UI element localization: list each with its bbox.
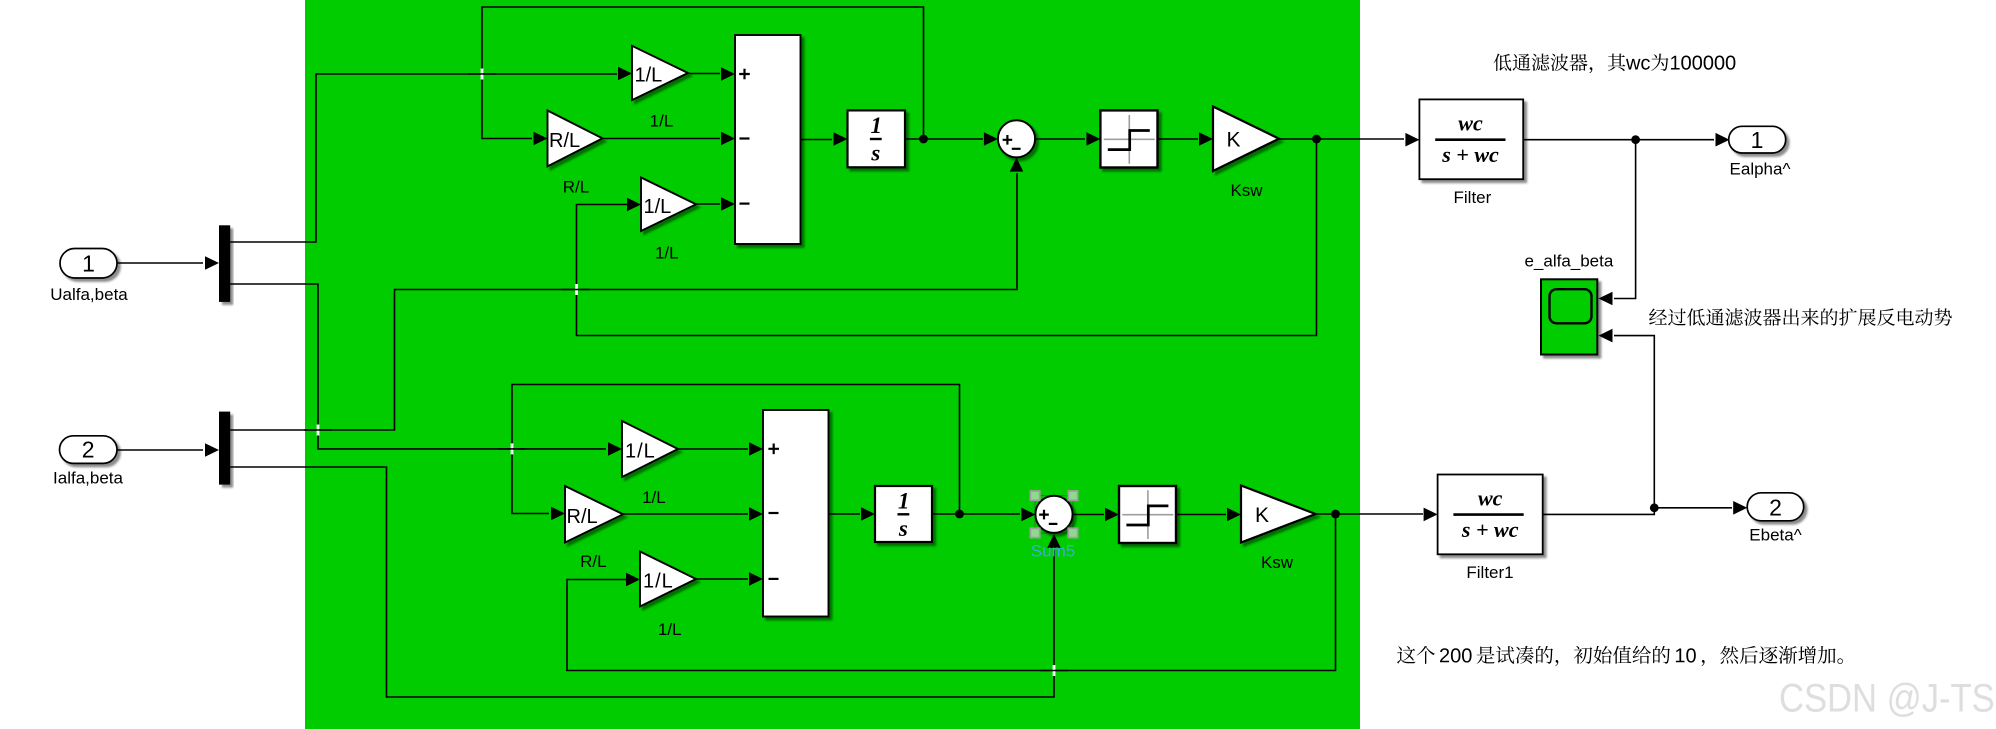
arrowhead into Filter — [1405, 133, 1419, 147]
sign + of Sum1 — [1003, 135, 1013, 145]
gain 1/L2 (top loop) — [641, 178, 696, 232]
junction node: Ksw output — [1312, 135, 1321, 144]
sign - of Sum5 — [1049, 523, 1058, 525]
mux M1 (Ualfa,beta demux) — [219, 225, 230, 302]
annotation: low-pass filter note — [1494, 54, 1736, 74]
wire: bottom R/L out to Sum2 — [623, 513, 748, 515]
svg-text:1: 1 — [82, 251, 95, 277]
junction node: integrator2 output — [955, 510, 964, 519]
svg-text:s + wc: s + wc — [1461, 517, 1519, 542]
arrowhead into gain R/L — [534, 132, 548, 146]
wire: Mux out1 (Ualpha) to gain 1/L (top) — [230, 74, 617, 242]
junction node: Ebeta branch — [1650, 503, 1659, 512]
svg-text:Ksw: Ksw — [1230, 181, 1263, 200]
svg-text:s: s — [870, 141, 880, 166]
wire: Ksw2 feedback to bottom gain 1/L2 — [567, 514, 1336, 671]
arrowhead into Sum2 -b — [749, 572, 763, 586]
sign + of S1 — [739, 69, 750, 80]
arrowhead into Filter1 — [1424, 508, 1438, 522]
wire: bottom gain 1/L2 out to Sum2 — [696, 578, 748, 580]
arrowhead into Sum5 bottom — [1047, 534, 1061, 548]
arrowhead into Saturation — [1086, 132, 1100, 146]
wire: gain 1/L top output to Sum1 + input — [688, 73, 720, 75]
wire: Mux1 out1 (Ialpha) to Sum bottom input — [230, 173, 1017, 430]
annotation: extended back-EMF note — [1649, 308, 1952, 326]
sign + of S2 — [768, 444, 779, 455]
svg-text:K: K — [1226, 128, 1240, 151]
Filter1 block wc/(s+wc) — [1438, 475, 1543, 555]
wire: Mux out2 (Ubeta) to gain 1/L (bottom obs) — [230, 284, 606, 449]
svg-text:Ualfa,beta: Ualfa,beta — [50, 285, 128, 304]
svg-text:Ebeta^: Ebeta^ — [1749, 526, 1801, 545]
svg-text:1/L: 1/L — [635, 65, 663, 87]
svg-text:2: 2 — [82, 437, 95, 463]
gain K (Ksw) — [1213, 107, 1279, 172]
wire: K2 out to Filter1, junction — [1316, 513, 1424, 515]
wire: Integrator2 out to Sum5 — [932, 513, 1020, 515]
wire: Ualfa port to Mux — [117, 262, 203, 264]
wire: Sum5 out to Saturation2 — [1073, 514, 1104, 516]
arrowhead into Scope input1 — [1599, 292, 1613, 306]
wire: Ealpha junction down to Scope input 1 — [1614, 140, 1636, 299]
arrowhead into Integrator2 — [861, 507, 875, 521]
bottom gain 1/L2 — [640, 552, 696, 607]
arrowhead into Sum1 -b — [721, 197, 735, 211]
arrowhead into Saturation2 — [1105, 508, 1119, 522]
arrowhead into Sum circle1 left — [984, 132, 998, 146]
arrowhead into Sum2 -a — [749, 507, 763, 521]
arrowhead into bottom gain R/L — [551, 507, 565, 521]
wire: Sum circle1 out to Saturation — [1035, 138, 1085, 140]
sign - of S2 (mid) — [769, 512, 779, 514]
sign - of S1 (low) — [740, 203, 750, 205]
selection handle BL — [1030, 528, 1039, 537]
svg-text:wc: wc — [1458, 110, 1483, 135]
wire: gain R/L output to Sum1 - input — [602, 138, 720, 140]
arrowhead into Scope input2 — [1599, 329, 1613, 343]
wire: Mux1 out2 (Ibeta) to Sum5 bottom input — [230, 467, 1054, 697]
junction node: integrator1 output — [919, 135, 928, 144]
svg-text:1: 1 — [898, 489, 910, 514]
svg-text:1/L: 1/L — [658, 620, 682, 639]
annotation: 200 tuning note — [1397, 646, 1843, 666]
sign - of Sum1 — [1012, 148, 1021, 150]
svg-text:1/L: 1/L — [655, 244, 679, 263]
svg-text:s: s — [898, 516, 908, 541]
sign - of S1 (mid) — [740, 137, 750, 139]
wire: Filter out to port Ealpha, junction — [1523, 139, 1714, 141]
green background area — [305, 0, 1360, 729]
saturation block — [1100, 110, 1157, 167]
junction node: Ksw2 output — [1331, 510, 1340, 519]
svg-text:Ksw: Ksw — [1261, 553, 1294, 572]
svg-text:1/L: 1/L — [644, 196, 672, 218]
selection handle TL — [1030, 491, 1039, 500]
arrowhead into bottom gain 1/L2 — [626, 573, 640, 587]
arrowhead into bottom gain 1/L — [608, 442, 622, 456]
selection handle BR — [1068, 528, 1077, 537]
svg-text:R/L: R/L — [563, 178, 589, 197]
svg-text:R/L: R/L — [580, 552, 606, 571]
sum block S2 (+ - -) — [763, 410, 829, 617]
svg-text:Ealpha^: Ealpha^ — [1730, 160, 1791, 179]
gain R/L (top) — [548, 111, 603, 167]
selection handle TR — [1068, 491, 1077, 500]
svg-text:wc: wc — [1478, 485, 1503, 510]
arrowhead into port Ebeta — [1733, 501, 1747, 515]
svg-text:1/L: 1/L — [625, 441, 656, 463]
saturation2 block — [1119, 486, 1176, 543]
selection box of Sum5 — [1035, 496, 1073, 534]
sum block S1 (+ - -) — [735, 35, 801, 244]
svg-text:Ialfa,beta: Ialfa,beta — [53, 469, 123, 488]
svg-text:2: 2 — [1769, 494, 1782, 520]
wire: integrator feedback to R/L (top loop) — [482, 7, 924, 139]
svg-text:K: K — [1255, 504, 1269, 527]
arrowhead into Sum2 + — [749, 442, 763, 456]
sum circle Sum1 — [998, 120, 1035, 157]
sum circle Sum5 (selected) — [1035, 496, 1072, 533]
gain 1/L (top, Ualpha) — [632, 46, 688, 100]
bottom gain 1/L (Ubeta) — [622, 421, 678, 477]
svg-text:R/L: R/L — [567, 506, 598, 528]
arrowhead into port Ealpha — [1716, 133, 1730, 147]
wire: bottom obs gain 1/L out to Sum2 — [678, 448, 748, 450]
svg-text:1: 1 — [1751, 127, 1764, 153]
output port 2 (Ebeta^) — [1747, 493, 1804, 521]
wire: integrator2 feedback to R/L2 (bottom loop) — [512, 385, 960, 515]
scope e_alfa_beta — [1541, 279, 1597, 354]
arrowhead into Mux — [205, 256, 219, 270]
arrowhead into gain 1/L2 — [627, 198, 641, 212]
svg-text:1: 1 — [870, 113, 882, 138]
svg-text:1/L: 1/L — [650, 112, 674, 131]
integrator 1/s — [848, 110, 906, 167]
mux M2 (Ialfa,beta demux) — [219, 412, 230, 485]
wire crossing halos (white gap in vertical, horizontal drawn over) — [318, 69, 1054, 677]
arrowhead into gain 1/L top — [618, 67, 632, 81]
wire: Integrator output to Sum circle, junction — [905, 138, 983, 140]
output port 1 (Ealpha^) — [1729, 126, 1786, 153]
wire: Saturation2 out to K2 — [1176, 514, 1226, 516]
arrowhead into Sum5 left — [1021, 508, 1035, 522]
arrowhead into Integrator — [834, 132, 848, 146]
input port 1 (Ualfa,beta) — [60, 249, 117, 279]
wire: K out to Filter, junction — [1279, 138, 1404, 140]
svg-text:1/L: 1/L — [642, 488, 666, 507]
arrowhead into Sum1 -a — [721, 132, 735, 146]
arrowhead into Sum circle1 bottom — [1010, 158, 1024, 172]
wire: Filter1 out to port Ebeta, junction — [1543, 508, 1732, 515]
svg-text:CSDN @J-TS: CSDN @J-TS — [1779, 675, 1995, 720]
wire: Ialfa port to Mux1 — [117, 449, 203, 451]
svg-text:s + wc: s + wc — [1441, 142, 1499, 167]
input port 2 (Ialfa,beta) — [60, 436, 118, 464]
svg-text:Filter: Filter — [1454, 188, 1492, 207]
wire: Saturation out to K gain — [1158, 138, 1199, 140]
svg-text:1/L: 1/L — [643, 571, 674, 593]
svg-text:Sum5: Sum5 — [1031, 542, 1075, 561]
sign + of Sum5 — [1039, 510, 1049, 520]
wire: Ebeta junction up to Scope input 2 — [1614, 336, 1654, 508]
Filter block wc/(s+wc) — [1419, 99, 1523, 179]
wire: Ksw feedback to gain 1/L2 (top loop) — [577, 139, 1317, 336]
svg-text:R/L: R/L — [549, 130, 580, 152]
svg-text:Filter1: Filter1 — [1466, 563, 1513, 582]
arrowhead into K gain — [1199, 132, 1213, 146]
bottom gain R/L — [565, 486, 623, 543]
svg-text:e_alfa_beta: e_alfa_beta — [1524, 252, 1613, 271]
arrowhead into Mux1 — [205, 443, 219, 457]
junction node: Ealpha branch — [1631, 135, 1640, 144]
integrator2 1/s — [875, 486, 932, 542]
arrowhead into Sum1 + — [721, 67, 735, 81]
wire: Sum2 out to Integrator2 — [829, 513, 861, 515]
wire: Sum1 output to Integrator — [801, 139, 833, 141]
arrowhead into K2 gain — [1227, 508, 1241, 522]
wire: gain 1/L2 output to Sum1 - input — [696, 203, 720, 205]
gain K2 (Ksw) — [1241, 486, 1316, 543]
sign - of S2 (low) — [769, 578, 779, 580]
